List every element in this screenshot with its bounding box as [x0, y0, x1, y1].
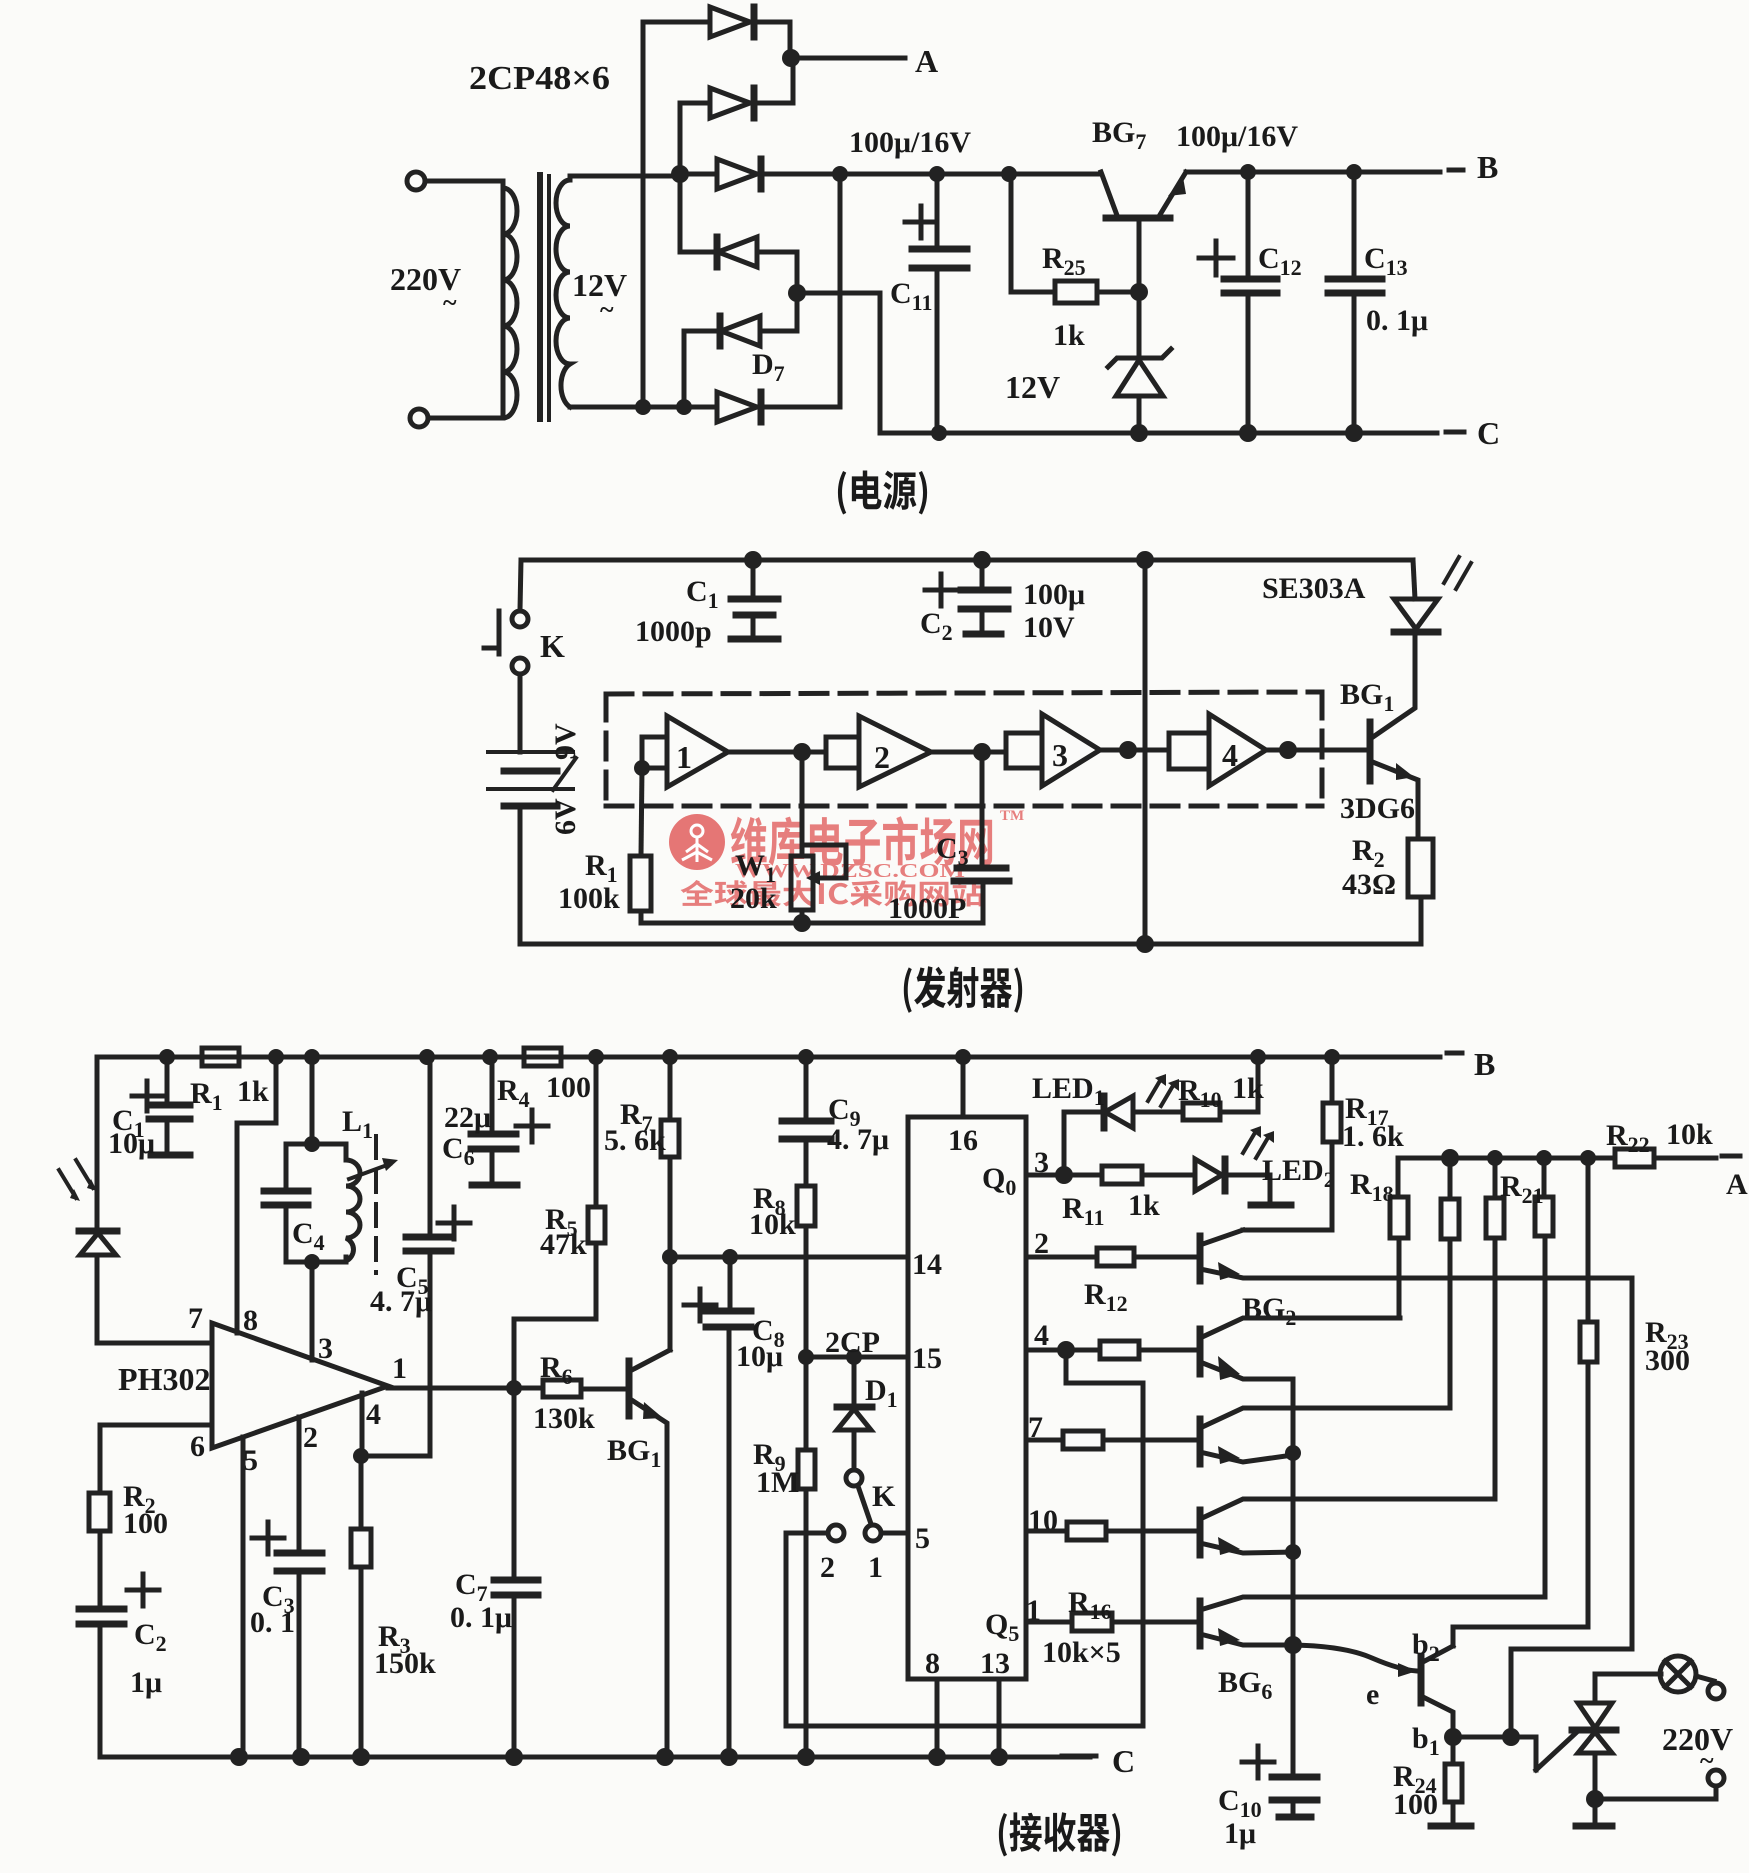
svg-text:10μ: 10μ: [736, 1340, 783, 1373]
svg-text:220V: 220V: [1662, 1721, 1733, 1757]
transistor BG5: [1200, 1499, 1495, 1555]
resistor R17 1.6k: [1243, 1057, 1404, 1230]
wire positive rail: [840, 172, 1101, 177]
wire PH302 pin3 tank: [310, 1057, 315, 1144]
diode D1 of bridge: [643, 7, 790, 58]
wire Q5 pin1 row with resistor R16: [1026, 1620, 1072, 1625]
wire pin2 row with resistor R12: [1026, 1255, 1097, 1260]
wire IC supply pin vertical: [1143, 560, 1148, 944]
resistor R2 receiver 100: [89, 1425, 212, 1607]
svg-text:1μ: 1μ: [1224, 1817, 1256, 1850]
capacitor C9 4.7u: [782, 1057, 889, 1186]
wire PH302 pin8: [237, 1057, 276, 1333]
diode D2 of bridge: [680, 58, 793, 174]
svg-text:~: ~: [443, 288, 457, 317]
svg-text:10k: 10k: [1666, 1118, 1713, 1151]
svg-text:300: 300: [1645, 1344, 1690, 1377]
svg-text:4. 7μ: 4. 7μ: [827, 1123, 889, 1156]
resistor R24 100: [1393, 1737, 1471, 1826]
transformer core: [537, 172, 543, 422]
resistor R3 150k: [351, 1456, 436, 1757]
svg-text:4: 4: [1222, 737, 1238, 773]
junction: [1285, 1544, 1301, 1560]
wire pin7 row with resistor R14: [1026, 1438, 1063, 1443]
capacitor C12: [1199, 172, 1302, 433]
triac SCR: [1572, 1674, 1616, 1826]
wire to terminal A: [791, 56, 905, 61]
wire inverter1 output: [728, 750, 826, 755]
svg-text:9V: 9V: [549, 723, 582, 760]
wire K contact2 loop: [786, 1350, 1143, 1726]
svg-text:100k: 100k: [558, 882, 620, 915]
potentiometer W1 20k: [730, 752, 846, 923]
wire inverter3 output: [1100, 748, 1169, 753]
resistor R5 47k: [514, 1057, 605, 1388]
capacitor C8 10u: [684, 1257, 785, 1757]
svg-text:2: 2: [303, 1421, 318, 1454]
svg-text:1: 1: [868, 1551, 883, 1584]
svg-text:16: 16: [948, 1124, 978, 1157]
junction dot secondary top node: [671, 165, 689, 183]
battery GB 6V/9V: [488, 723, 582, 944]
LED1 with R10: [1032, 1057, 1264, 1175]
svg-text:100μ/16V: 100μ/16V: [849, 126, 971, 159]
junction dot secondary bottom / D5: [676, 399, 692, 415]
diode D1 receiver: [837, 1357, 898, 1469]
unijunction transistor output stage: [1293, 1628, 1453, 1760]
resistor R4 100: [497, 1048, 591, 1112]
node A junction: [782, 49, 800, 67]
svg-text:15: 15: [912, 1342, 942, 1375]
capacitor C5 4.7u: [361, 1057, 470, 1456]
svg-text:100μ/16V: 100μ/16V: [1176, 120, 1298, 153]
svg-text:22μ: 22μ: [444, 1101, 491, 1134]
wire inverter2 output: [931, 750, 1006, 755]
wire receiver C rail: [100, 1755, 1090, 1760]
junction: [1586, 1790, 1604, 1808]
junction dots C rail: [230, 1748, 248, 1766]
transistor BG2: [1200, 1230, 1632, 1737]
svg-text:20k: 20k: [730, 882, 777, 915]
svg-text:1: 1: [676, 739, 692, 775]
transformer secondary winding: [556, 176, 570, 407]
svg-text:7: 7: [188, 1302, 203, 1335]
svg-text:10V: 10V: [1023, 611, 1075, 644]
wire feedback bottom: [641, 921, 983, 926]
resistor R9 1M: [753, 1357, 815, 1757]
wire pin3: [310, 1262, 315, 1360]
svg-text:14: 14: [912, 1248, 942, 1281]
A bus with resistors R18-R21: [1398, 1156, 1615, 1161]
diode D6 of bridge: [684, 174, 840, 422]
svg-text:10μ: 10μ: [108, 1127, 155, 1160]
svg-text:100μ: 100μ: [1023, 578, 1085, 611]
capacitor C4 tank: [264, 1144, 325, 1262]
capacitor C3 transmitter 1000P: [888, 752, 1009, 925]
transistor BG7: [1092, 116, 1186, 292]
wire pin15 row: [806, 1355, 908, 1360]
wire PH302 output node: [388, 1386, 543, 1391]
junction W1 bottom: [793, 914, 811, 932]
capacitor C13: [1328, 172, 1428, 433]
svg-text:1k: 1k: [1128, 1189, 1160, 1222]
junction dots on B rail: [159, 1049, 175, 1065]
capacitor C1 receiver 10u: [108, 1057, 190, 1160]
svg-text:0. 1μ: 0. 1μ: [450, 1601, 512, 1634]
diode D5 of bridge: [684, 293, 797, 407]
svg-text:0. 1: 0. 1: [250, 1606, 295, 1639]
junction dot D7 node: [788, 284, 806, 302]
wire receiver B rail: [97, 1055, 1440, 1060]
wire pin14 row: [670, 1255, 908, 1260]
capacitor C1 transmitter 1000p: [635, 560, 778, 648]
svg-text:1μ: 1μ: [130, 1666, 162, 1699]
IC counter box: [908, 1117, 1026, 1679]
resistor R20: [1486, 1158, 1504, 1499]
svg-text:8: 8: [243, 1304, 258, 1337]
transistor BG4: [1200, 1408, 1450, 1464]
transistor BG1 receiver: [607, 1350, 670, 1757]
svg-text:1: 1: [392, 1352, 407, 1385]
svg-text:B: B: [1474, 1046, 1495, 1082]
wire primary top lead: [426, 179, 503, 184]
infrared LED SE303A: [1262, 557, 1471, 632]
inverter gate 2: [826, 716, 931, 787]
svg-text:130k: 130k: [533, 1402, 595, 1435]
capacitor C10 1u: [1218, 1746, 1317, 1850]
inverter gate 3: [1006, 714, 1100, 786]
svg-text:C: C: [1477, 415, 1500, 451]
wire pin3 Q0 row: [1026, 1173, 1102, 1178]
svg-text:4: 4: [366, 1398, 381, 1431]
svg-text:K: K: [872, 1480, 896, 1513]
resistor R11 and LED2: [1062, 1126, 1335, 1230]
resistor R23 300: [1453, 1158, 1690, 1646]
svg-text:150k: 150k: [374, 1647, 436, 1680]
wire pin4 row with resistor R13: [1026, 1348, 1100, 1353]
resistor R1 transmitter 100k: [558, 768, 651, 923]
resistor R21: [1500, 1158, 1553, 1236]
wire emitter bus: [1291, 1379, 1296, 1775]
svg-text:47k: 47k: [540, 1228, 587, 1261]
junction dot: [635, 399, 651, 415]
svg-text:1000P: 1000P: [888, 892, 966, 925]
capacitor C6 22u: [442, 1057, 548, 1185]
svg-text:e: e: [1366, 1678, 1379, 1711]
resistor R2 transmitter 43ohm: [1342, 834, 1433, 944]
svg-text:4: 4: [1034, 1319, 1049, 1352]
pin16 wire: [961, 1057, 966, 1117]
svg-text:2: 2: [820, 1551, 835, 1584]
resistor R7 5.6k: [604, 1057, 679, 1350]
svg-text:1k: 1k: [237, 1075, 269, 1108]
svg-text:C: C: [1112, 1743, 1135, 1779]
svg-text:3: 3: [318, 1332, 333, 1365]
junction: [304, 1254, 320, 1270]
wire primary bottom lead: [429, 416, 503, 421]
wm-row3 (w=252): [681, 880, 984, 907]
watermark logo circle: [669, 814, 725, 870]
svg-text:6V: 6V: [549, 798, 582, 835]
IC dashed package box: [606, 692, 1322, 806]
junction: [1444, 1728, 1462, 1746]
wire pin10 row with resistor R15: [1026, 1529, 1067, 1534]
switch K transmitter: [484, 560, 565, 752]
svg-text:100: 100: [546, 1071, 591, 1104]
svg-text:1. 6k: 1. 6k: [1342, 1120, 1404, 1153]
resistor R18: [1350, 1158, 1408, 1318]
junction: [931, 425, 947, 441]
svg-text:8: 8: [925, 1647, 940, 1680]
switch K receiver: [820, 1470, 896, 1584]
capacitor C11: [890, 174, 967, 433]
transformer primary winding: [503, 181, 517, 418]
svg-text:100: 100: [123, 1507, 168, 1540]
inverter gate 4: [1169, 714, 1266, 786]
svg-text:SE303A: SE303A: [1262, 572, 1366, 605]
wire secondary top to node: [570, 174, 680, 176]
svg-text:5: 5: [915, 1522, 930, 1555]
svg-text:5. 6k: 5. 6k: [604, 1124, 666, 1157]
transformer T primary terminals: [407, 172, 425, 190]
wire PH302 pin4: [360, 1393, 365, 1456]
capacitor C2 transmitter 100u/10V: [920, 560, 1085, 645]
junction: [1130, 424, 1148, 442]
wire rail after BG7: [1186, 170, 1440, 175]
svg-text:10k: 10k: [749, 1208, 796, 1241]
caption-fasheqi: [904, 966, 1022, 1013]
svg-text:6: 6: [190, 1430, 205, 1463]
capacitor C7 0.1u: [450, 1388, 538, 1757]
capacitor C3 receiver 0.1: [250, 1417, 322, 1757]
wire from D7 node to C rail: [797, 293, 939, 433]
svg-text:1k: 1k: [1053, 319, 1085, 352]
junction inverter1 input: [634, 760, 650, 776]
svg-text:10k×5: 10k×5: [1042, 1636, 1121, 1669]
svg-text:100: 100: [1393, 1788, 1438, 1821]
svg-text:2CP: 2CP: [825, 1326, 880, 1359]
zener diode DW 12V: [1005, 292, 1171, 433]
svg-text:13: 13: [980, 1647, 1010, 1680]
svg-text:~: ~: [600, 295, 614, 324]
transistor BG1 transmitter 3DG6: [1340, 631, 1418, 839]
junction: [1284, 1636, 1302, 1654]
svg-text:1k: 1k: [1232, 1072, 1264, 1105]
opamp PH302: [118, 1323, 388, 1448]
svg-text:2: 2: [874, 739, 890, 775]
junction dot BG7 base node: [1130, 283, 1148, 301]
junction: [662, 1249, 678, 1265]
wire transmitter bottom rail: [520, 942, 1421, 947]
lamp 220V load: [1595, 1656, 1733, 1799]
wm-main (w=364): [731, 816, 992, 866]
caption-jieshouqi: [999, 1812, 1120, 1856]
resistor R8 10k: [749, 1182, 815, 1357]
resistor R6 130k: [533, 1351, 629, 1435]
inverter gate 1: [642, 716, 728, 787]
junction: [1285, 1445, 1301, 1461]
resistor R19: [1441, 1158, 1459, 1408]
wire left riser to diode D1: [641, 22, 646, 407]
svg-text:B: B: [1477, 149, 1498, 185]
svg-text:A: A: [1726, 1168, 1748, 1201]
diode D4 of bridge: [680, 174, 797, 293]
wire secondary bottom: [570, 405, 717, 410]
svg-text:0. 1μ: 0. 1μ: [1366, 304, 1428, 337]
svg-text:PH302: PH302: [118, 1361, 210, 1397]
svg-text:A: A: [915, 43, 938, 79]
svg-text:43Ω: 43Ω: [1342, 868, 1396, 901]
photodiode receiver input: [59, 1057, 212, 1343]
transistor BG6: [1200, 1236, 1545, 1704]
svg-text:4. 7μ: 4. 7μ: [370, 1285, 432, 1318]
wire inverter4 output to BG1: [1266, 748, 1370, 753]
capacitor C2 receiver 1u: [79, 1574, 167, 1757]
junction: [353, 1448, 369, 1464]
svg-text:1M: 1M: [756, 1466, 799, 1499]
svg-text:3: 3: [1052, 737, 1068, 773]
transistor BG3: [1200, 1318, 1400, 1453]
svg-text:K: K: [540, 628, 565, 664]
wire b1 to triac gate: [1453, 1737, 1536, 1770]
resistor R1 receiver 1k: [190, 1048, 269, 1115]
junction: [798, 1349, 814, 1365]
watermark text weiku: [681, 808, 1025, 907]
wire C rail: [880, 431, 1437, 436]
wire K contact1 to pin5: [881, 1531, 908, 1536]
diode D3 of bridge: [680, 159, 840, 189]
wire transmitter supply rail: [521, 558, 1413, 563]
resistor R25: [1009, 174, 1139, 352]
svg-text:TM: TM: [1000, 808, 1024, 824]
resistor R22 10k to node A: [1606, 1118, 1748, 1201]
svg-text:2CP48×6: 2CP48×6: [469, 60, 610, 97]
inductor L1 tank: [312, 1105, 398, 1273]
svg-text:1000p: 1000p: [635, 615, 712, 648]
wire IC pin13 to C rail: [997, 1679, 1002, 1757]
wire pin5 PH302 down: [241, 1437, 246, 1757]
svg-text:3DG6: 3DG6: [1340, 792, 1415, 825]
wire IC pin8 to C rail: [935, 1679, 940, 1757]
caption-dianyuan: [838, 471, 927, 515]
svg-text:12V: 12V: [1005, 369, 1060, 405]
